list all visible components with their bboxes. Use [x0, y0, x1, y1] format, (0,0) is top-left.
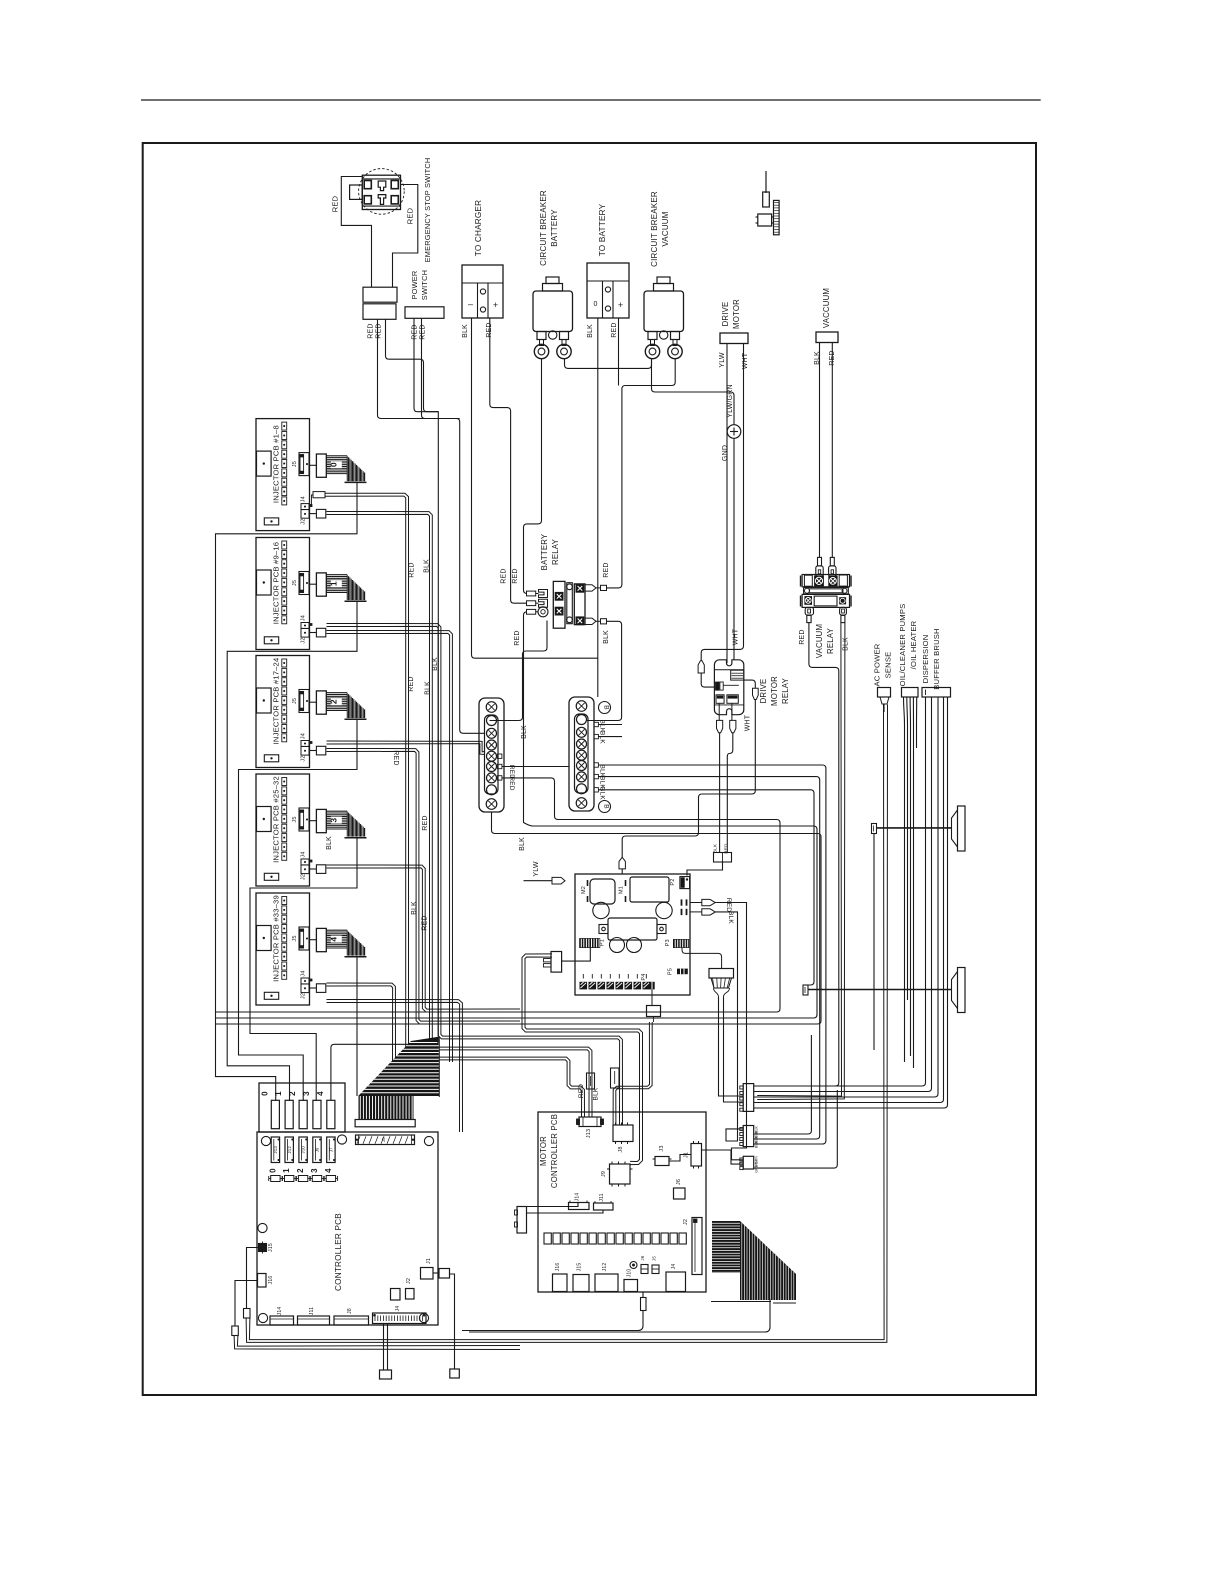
inline plug J13 cable	[587, 1073, 595, 1089]
svg-text:RED: RED	[512, 568, 519, 583]
injector PCB #1 (INJECTOR PCB #9-16)	[256, 538, 367, 650]
cable J16 harness return	[234, 1336, 520, 1350]
label POWER SWITCH	[410, 270, 429, 300]
label RED relay right	[603, 562, 610, 577]
wire dispersion motor junction drop	[873, 834, 875, 1050]
svg-text:BLK: BLK	[425, 681, 432, 695]
wire power switch to terminal strip TB2	[378, 319, 485, 733]
svg-text:BLK: BLK	[727, 911, 734, 924]
label RED trunk upper	[409, 562, 416, 577]
svg-text:BLK: BLK	[326, 836, 333, 850]
harness connector block slots 0-4	[259, 1083, 345, 1132]
svg-text:2: 2	[288, 1091, 297, 1096]
connector J-R1 (dispersion/buffer harness)	[740, 1084, 754, 1112]
wire YLW to drive relay	[726, 344, 728, 663]
svg-text:J4: J4	[395, 1306, 401, 1312]
svg-text:J2: J2	[300, 993, 306, 999]
wire P1 to left connector loop	[562, 948, 591, 961]
svg-text:J2: J2	[300, 755, 306, 761]
wire inline connector to P2	[687, 862, 723, 876]
spade connector A1 left YLW	[524, 877, 566, 884]
cable injector PCB2 harness b	[327, 749, 521, 1025]
svg-text:B: B	[603, 804, 610, 809]
svg-text:INJECTOR PCB #1–8: INJECTOR PCB #1–8	[272, 425, 281, 503]
cable AC sense return to controller	[246, 705, 887, 1343]
label BLK battery	[587, 324, 594, 338]
wire WHT drive relay to interface PCB	[622, 700, 755, 858]
wire ribbon to bottom run	[469, 1300, 770, 1333]
wire vacuum breaker to ground stud	[652, 359, 735, 425]
TO BATTERY receptacle	[587, 263, 629, 318]
svg-text:INJECTOR PCB #33–39: INJECTOR PCB #33–39	[272, 895, 281, 982]
svg-text:RED: RED	[508, 776, 515, 790]
label WHT drive relay	[745, 714, 752, 731]
svg-text:2: 2	[296, 1168, 305, 1173]
svg-text:INJECTOR PCB #9–16: INJECTOR PCB #9–16	[272, 542, 281, 624]
svg-text:RED: RED	[392, 750, 399, 765]
wire left connector to J11	[527, 1210, 604, 1213]
wire battery breaker to battery relay	[524, 359, 542, 594]
label BLK mirrored A1	[727, 911, 734, 924]
cable injector PCB2 harness to terminal strip TB1	[327, 741, 485, 755]
svg-text:B: B	[603, 705, 610, 710]
label TO CHARGER	[474, 200, 483, 256]
svg-text:RED: RED	[412, 324, 419, 339]
wire J3 to J1	[669, 1155, 691, 1162]
svg-text:J4: J4	[300, 496, 306, 502]
label TO BATTERY	[598, 203, 607, 256]
harness fan-out connector P3	[682, 948, 734, 997]
wire oil/cleaner pump harness 5	[916, 697, 918, 748]
spade terminal drive relay b	[730, 703, 736, 732]
spade terminal WHT right	[752, 688, 758, 699]
injector PCB #3 (INJECTOR PCB #25-32)	[256, 774, 367, 886]
svg-text:P4: P4	[641, 973, 647, 980]
battery relay K1	[527, 581, 607, 628]
svg-text:J5: J5	[292, 935, 298, 941]
wire J16 to edge plug	[232, 1281, 258, 1336]
svg-text:J10: J10	[627, 1269, 633, 1278]
wire TB2 screw5 to harness	[598, 765, 826, 1144]
connector AC power sense	[878, 688, 891, 705]
svg-text:RED: RED	[420, 324, 427, 339]
label RED vacuum	[829, 350, 836, 365]
label RED battery	[611, 322, 618, 337]
wire dispersion/buffer harness 4	[754, 697, 944, 1103]
svg-text:OIL/CLEANER PUMPS: OIL/CLEANER PUMPS	[898, 604, 907, 687]
svg-text:CONTROLLER PCB: CONTROLLER PCB	[550, 1114, 559, 1188]
svg-text:J13: J13	[273, 1146, 278, 1154]
wire buffer brush motor feed	[803, 985, 952, 995]
svg-text:BLK: BLK	[713, 844, 718, 853]
wire fan-out cable to connector J-R1	[719, 997, 744, 1102]
svg-text:J8: J8	[618, 1146, 624, 1152]
svg-text:BLK: BLK	[521, 725, 528, 739]
spade terminal drive relay a	[717, 703, 723, 732]
wire battery RED junction	[618, 318, 620, 386]
svg-text:CIRCUIT BREAKER: CIRCUIT BREAKER	[650, 191, 659, 267]
cable P4 to motor controller J8	[613, 1022, 652, 1125]
connector PCB A1 left	[544, 952, 562, 973]
connector J-R2 (pumps harness)	[740, 1125, 759, 1148]
svg-text:J15: J15	[268, 1243, 274, 1252]
connector J1 mate	[433, 1269, 450, 1279]
svg-text:INJECTOR PCB #17–24: INJECTOR PCB #17–24	[272, 658, 281, 745]
cable injector PCB1 harness b	[327, 631, 453, 1063]
svg-text:MOTOR: MOTOR	[732, 299, 741, 329]
wire dispersion/buffer harness 3	[754, 697, 938, 1097]
svg-text:RED: RED	[408, 676, 415, 691]
chassis mounting screw	[756, 171, 780, 235]
TO CHARGER receptacle	[462, 265, 503, 318]
inline connector drive relay to P2	[713, 843, 732, 862]
wire battery breaker to vacuum breaker	[565, 359, 652, 369]
svg-text:AC POWER: AC POWER	[873, 643, 882, 686]
svg-text:RED: RED	[799, 629, 806, 644]
drive motor relay K3	[714, 660, 743, 715]
ribbon cable motor controller J2	[711, 1221, 796, 1303]
label BLK near PCB3	[326, 836, 333, 850]
label BLK lower	[519, 837, 526, 851]
svg-text:P3: P3	[665, 939, 671, 946]
label DRIVE MOTOR RELAY	[759, 676, 790, 706]
svg-text:VACUUM: VACUUM	[661, 211, 670, 246]
svg-text:BLK: BLK	[587, 324, 594, 338]
terminal lugs TB1	[498, 754, 502, 780]
wire power switch label box a	[414, 318, 438, 411]
cable injector PCB1 harness a	[327, 624, 623, 1126]
label BLK charger	[462, 324, 469, 338]
svg-text:BLK: BLK	[462, 324, 469, 338]
svg-text:J10: J10	[301, 1146, 306, 1154]
svg-text:P2: P2	[670, 878, 676, 885]
svg-text:CONTROLLER PCB: CONTROLLER PCB	[334, 1213, 343, 1291]
node B lower	[599, 801, 611, 813]
label BATTERY RELAY	[540, 533, 560, 570]
svg-text:J11: J11	[599, 1193, 605, 1201]
svg-text:J6: J6	[640, 1255, 645, 1260]
label BLK relay right	[603, 630, 610, 644]
svg-text:M2: M2	[581, 886, 587, 894]
svg-text:J13: J13	[586, 1129, 592, 1138]
wire TB2 BLK to buffer brush feed	[598, 790, 814, 985]
svg-text:1: 1	[328, 581, 338, 586]
svg-text:BLK: BLK	[599, 731, 606, 744]
label RED label-box wires	[412, 324, 427, 339]
page top rule	[141, 99, 1041, 101]
wire ground to drive relay	[733, 438, 735, 660]
wire ribbon 1 to connector slot 1	[227, 601, 357, 1101]
svg-text:RED: RED	[331, 195, 340, 212]
svg-text:YLW/GRN: YLW/GRN	[727, 384, 734, 418]
svg-text:J12: J12	[287, 1146, 292, 1154]
svg-text:J15: J15	[577, 1263, 583, 1272]
svg-text:0: 0	[268, 1168, 277, 1173]
label RED charger	[486, 322, 493, 337]
svg-text:GND: GND	[722, 445, 729, 461]
wire J1 harness down	[450, 1274, 460, 1378]
svg-text:POWER: POWER	[410, 271, 419, 300]
svg-text:TO BATTERY: TO BATTERY	[598, 203, 607, 256]
svg-text:RED: RED	[422, 915, 429, 930]
wire dispersion/buffer harness 5	[754, 697, 948, 1108]
svg-text:DISPERSION: DISPERSION	[921, 635, 930, 684]
wire J4 harness down	[380, 1324, 392, 1380]
cable injector PCB0 J2 harness (BLK)	[327, 512, 593, 1118]
cable vacuum relay BLK return	[757, 623, 845, 1100]
svg-text:MOTOR: MOTOR	[770, 676, 779, 706]
svg-text:J8: J8	[347, 1308, 353, 1314]
dispersion motor M-D	[952, 806, 966, 851]
wire ribbon 2 to connector slot 2	[239, 719, 358, 1101]
svg-text:BLK: BLK	[424, 559, 431, 573]
label DISPERSION BUFFER BRUSH	[921, 628, 941, 689]
wire drive relay spade b to inline connector	[727, 733, 733, 853]
wire J15 to edge plug	[244, 1248, 259, 1319]
label YLW/GRN	[727, 384, 734, 418]
label RED strip1 wires	[508, 765, 515, 791]
label RED mirrored A1	[725, 898, 732, 912]
wire vacuum breaker to battery relay coil	[607, 359, 676, 588]
svg-text:BATTERY: BATTERY	[550, 209, 559, 247]
node B upper	[599, 702, 611, 714]
terminal lugs TB2	[594, 722, 598, 792]
svg-text:VACUUM: VACUUM	[815, 624, 824, 658]
circuit breaker battery CB1	[533, 277, 573, 359]
label YLW drive	[719, 352, 726, 367]
wire AC sense connector stub	[883, 705, 885, 713]
wire TB2 screw stub b	[598, 736, 622, 738]
svg-text:DRIVE: DRIVE	[759, 679, 768, 704]
svg-text:TO CHARGER: TO CHARGER	[474, 200, 483, 256]
svg-text:J7: J7	[329, 1147, 334, 1152]
wire spades to motor controller (RED)	[715, 903, 746, 1160]
svg-text:SWITCH: SWITCH	[420, 270, 429, 300]
wire J10 drop	[462, 1292, 646, 1331]
wire charger BLK to TB1	[472, 318, 598, 658]
svg-text:J4: J4	[300, 851, 306, 857]
svg-text:BATTERY: BATTERY	[540, 533, 549, 570]
wire spade c to relay	[701, 673, 714, 687]
injector PCB #0 (INJECTOR PCB #1-8)	[256, 419, 367, 531]
svg-text:RED: RED	[578, 1084, 585, 1098]
svg-text:J5: J5	[292, 580, 298, 586]
svg-text:DRIVE: DRIVE	[721, 302, 730, 327]
svg-text:BUFFER BRUSH: BUFFER BRUSH	[932, 628, 941, 689]
svg-text:MOTOR: MOTOR	[539, 1136, 548, 1166]
power switch S2	[363, 287, 397, 319]
label RED trunk	[408, 676, 415, 691]
svg-text:WHT: WHT	[745, 714, 752, 731]
wire relay to WHT spade	[744, 680, 756, 688]
connector motor controller left	[515, 1207, 527, 1234]
label RED e-stop left	[331, 195, 340, 212]
wire spades to motor controller (BLK)	[715, 912, 743, 1141]
wire dispersion/buffer harness 1	[754, 697, 926, 1086]
wire left connector to J14	[527, 1203, 579, 1207]
label DRIVE MOTOR	[721, 299, 741, 329]
cable injector PCB3 harness	[327, 865, 521, 1012]
label RED J13 cable	[578, 1084, 585, 1098]
ground GND terminal	[727, 425, 741, 439]
label BLK trunk	[425, 681, 432, 695]
svg-text:J1: J1	[426, 1258, 432, 1264]
svg-text:2: 2	[328, 699, 338, 704]
label RED relay top	[501, 568, 520, 583]
connector oil/cleaner pumps	[902, 688, 919, 698]
wire TB1 top to battery relay BLK	[490, 621, 548, 721]
wire loop TB1 bottom BLK	[216, 812, 821, 1024]
label RED trunk 3	[422, 915, 429, 930]
svg-text:4: 4	[324, 1168, 333, 1173]
svg-text:BLK: BLK	[593, 1087, 600, 1100]
label BLK vacuum	[814, 351, 821, 365]
svg-text:J3: J3	[659, 1145, 665, 1151]
svg-text:P1: P1	[600, 939, 606, 946]
svg-text:P5: P5	[668, 968, 674, 975]
wire J-R2 to upper harness	[754, 1035, 812, 1134]
svg-text:1: 1	[282, 1168, 291, 1173]
svg-text:J12: J12	[602, 1263, 608, 1272]
label CIRCUIT BREAKER BATTERY	[539, 190, 559, 266]
wire WHT to drive relay	[701, 344, 743, 661]
wire vacuum BLK to relay	[819, 343, 821, 557]
svg-text:+: +	[618, 300, 623, 310]
svg-text:J16: J16	[268, 1276, 274, 1285]
svg-text:J5: J5	[292, 698, 298, 704]
emergency stop switch S1	[350, 169, 405, 215]
svg-text:J2: J2	[300, 637, 306, 643]
svg-text:/OIL HEATER: /OIL HEATER	[909, 620, 918, 669]
label YLW lower	[533, 861, 540, 876]
label AC POWER SENSE	[873, 643, 893, 686]
label BLK charger line	[432, 657, 439, 671]
svg-text:SENSE: SENSE	[884, 652, 893, 679]
svg-text:J16: J16	[555, 1263, 561, 1272]
label RED e-stop right	[406, 207, 415, 224]
svg-text:J2: J2	[406, 1278, 412, 1284]
label BLK strip2 wires	[599, 720, 606, 733]
svg-text:RELAY: RELAY	[551, 538, 560, 565]
svg-text:–: –	[468, 299, 473, 309]
svg-text:RED: RED	[406, 207, 415, 224]
spade connector A1 top	[619, 857, 625, 874]
svg-text:RED: RED	[611, 322, 618, 337]
vacuum relay K2	[801, 557, 852, 622]
svg-text:RELAY: RELAY	[826, 627, 835, 654]
svg-text:J2: J2	[300, 518, 306, 524]
svg-text:0: 0	[594, 301, 598, 308]
power interface PCB A1	[575, 874, 715, 995]
motor controller PCB A3	[538, 1112, 706, 1292]
wire drive relay spade a to inline connector	[719, 733, 721, 853]
wire vacuum relay RED to harness bundle	[754, 623, 839, 1086]
wire e-stop right to power switch	[393, 185, 418, 288]
label BLK trunk upper	[424, 559, 431, 573]
wire oil/cleaner pump harness 4	[912, 697, 914, 1068]
svg-text:M1: M1	[619, 886, 625, 894]
wire battery relay BLK to TB2	[587, 621, 622, 720]
circuit breaker vacuum CB2	[644, 277, 684, 359]
wire oil/cleaner pump harness 3	[909, 697, 911, 1056]
svg-text:J2: J2	[683, 1219, 689, 1225]
svg-text:J2: J2	[300, 874, 306, 880]
wire dispersion motor feed	[872, 824, 952, 834]
svg-text:0: 0	[328, 462, 338, 467]
drawing border frame	[143, 143, 1036, 1395]
svg-text:J9: J9	[601, 1171, 607, 1177]
terminal strip TB2	[569, 697, 594, 811]
svg-text:J5: J5	[292, 461, 298, 467]
svg-text:BLK: BLK	[519, 837, 526, 851]
svg-text:J11: J11	[309, 1307, 315, 1315]
label WHT drive relay top	[733, 628, 740, 645]
inline connector below P4	[647, 989, 661, 1022]
svg-text:EMERGENCY STOP SWITCH: EMERGENCY STOP SWITCH	[423, 158, 432, 263]
svg-text:RED: RED	[409, 562, 416, 577]
cable left connector loop	[522, 954, 643, 1165]
cable injector PCB0 J4 harness (RED)	[309, 492, 585, 1117]
svg-text:VACCUUM: VACCUUM	[822, 288, 831, 328]
label GND	[722, 445, 729, 461]
vacuum motor connector	[816, 332, 838, 343]
svg-text:BLK: BLK	[599, 787, 606, 800]
svg-text:3: 3	[302, 1091, 311, 1096]
svg-text:3: 3	[328, 818, 338, 823]
wire vacuum RED to relay	[831, 343, 833, 557]
svg-text:J9: J9	[315, 1147, 320, 1152]
label RED vacuum relay	[799, 629, 806, 644]
wire battery BLK to relay	[597, 318, 599, 697]
wire oil/cleaner pump harness 1	[904, 697, 905, 1062]
svg-text:J14: J14	[575, 1193, 581, 1202]
svg-text:J6: J6	[676, 1179, 682, 1185]
label EMERGENCY STOP SWITCH	[423, 158, 432, 263]
spade terminal drive relay c	[698, 661, 704, 673]
svg-text:RED: RED	[514, 630, 521, 645]
label BLK trunk 2	[411, 901, 418, 915]
wire J-R3 dangling sense	[754, 1090, 838, 1168]
wire ribbon 4 to ribbon fan	[356, 957, 358, 1096]
connector dispersion/buffer brush	[922, 688, 951, 698]
svg-text:RED: RED	[376, 323, 383, 338]
wire loop battery relay return	[216, 612, 817, 1018]
svg-text:YLW: YLW	[719, 352, 726, 367]
terminal strip TB1	[479, 698, 504, 812]
wire loop TB1 screw6	[216, 778, 780, 1012]
svg-text:1: 1	[274, 1091, 283, 1096]
cable injector PCB4 harness b	[327, 1000, 463, 1133]
wire ribbon 0 to connector slot 0	[216, 482, 358, 1101]
injector PCB #4 (INJECTOR PCB #33-39)	[256, 893, 367, 1005]
power switch label box	[405, 307, 444, 319]
wire TB1 to TB2 link	[502, 766, 569, 768]
wire dispersion/buffer harness 2	[754, 697, 932, 1092]
svg-text:CIRCUIT BREAKER: CIRCUIT BREAKER	[539, 190, 548, 266]
svg-text:J4: J4	[671, 1264, 677, 1270]
svg-text:BLK: BLK	[603, 630, 610, 644]
inline plug J8 cable	[611, 1068, 620, 1088]
label WHT drive	[742, 352, 749, 369]
wire e-stop left to power switch	[341, 177, 371, 288]
controller PCB A2	[257, 1132, 438, 1325]
svg-text:4: 4	[316, 1091, 325, 1096]
label RED power switch wires	[368, 323, 383, 338]
svg-text:RED: RED	[368, 323, 375, 338]
svg-text:0: 0	[260, 1091, 269, 1096]
wire power switch label box b	[422, 318, 460, 418]
svg-text:BLK: BLK	[411, 901, 418, 915]
